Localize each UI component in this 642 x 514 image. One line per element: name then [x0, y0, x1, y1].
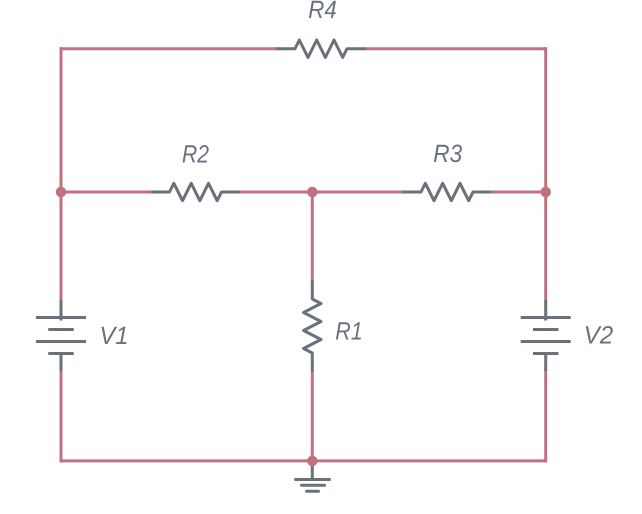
label R1: [336, 322, 361, 339]
label V1: [102, 327, 127, 344]
wire left lower: [60, 370, 63, 462]
resistor R1: [304, 281, 321, 372]
battery V2: [521, 300, 571, 371]
label R4: [309, 1, 336, 18]
wire branch lower (R1 to ground node): [311, 370, 314, 461]
node left: [56, 187, 67, 198]
resistor R2: [151, 183, 240, 200]
wire branch upper (center node to R1): [311, 192, 314, 282]
wire top right segment: [364, 47, 547, 50]
label R2: [183, 145, 209, 163]
label V2: [586, 326, 613, 344]
node ground junction: [307, 456, 318, 467]
wire middle B (R2 to center node): [238, 191, 312, 194]
battery V1: [36, 300, 86, 371]
wire middle C (center node to R3): [312, 191, 406, 194]
node right: [540, 187, 551, 198]
wire middle A (left node to R2): [61, 191, 153, 194]
wire top left segment: [60, 47, 279, 50]
resistor R4: [277, 40, 366, 57]
resistor R3: [403, 183, 491, 200]
wire middle D (R3 to right node): [487, 191, 546, 194]
wire bottom: [60, 459, 548, 462]
label R3: [434, 145, 462, 163]
wire right lower: [544, 370, 547, 462]
ground: [296, 461, 330, 491]
wire left upper: [60, 47, 63, 301]
wire right upper: [544, 47, 547, 301]
node center: [307, 187, 318, 198]
